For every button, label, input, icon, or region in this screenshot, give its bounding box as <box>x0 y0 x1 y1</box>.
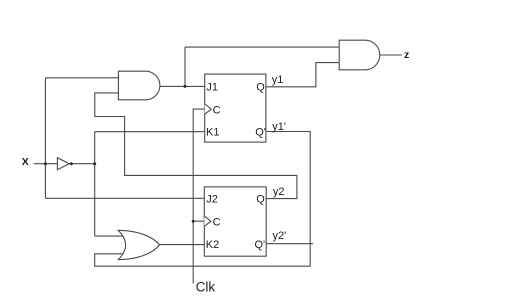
and-gate A2 (z = ·y1) <box>339 40 380 70</box>
wire K1 input (buffered X) y=131.7 <box>95 131 205 133</box>
jk-flip-flop FF1 box <box>205 74 266 142</box>
wire OR output to K2 y=244.6 <box>159 244 204 246</box>
wire vertical buffered X x=94.7 down to OR gate <box>94 132 96 236</box>
svg-text:K2: K2 <box>206 239 219 251</box>
svg-text:C: C <box>213 216 221 228</box>
svg-text:y1: y1 <box>272 74 284 86</box>
svg-text:X: X <box>22 156 29 168</box>
and-gate A1 (J1 = X·y2) <box>118 71 160 100</box>
wire X input lead <box>34 163 58 165</box>
svg-text:Q: Q <box>256 194 265 206</box>
jk-flip-flop FF2 box <box>204 187 266 256</box>
wire node J1 up to top rail <box>184 47 186 86</box>
node dot at buffer output <box>70 162 73 165</box>
svg-text:y2': y2' <box>273 230 287 242</box>
svg-text:Q': Q' <box>255 239 266 251</box>
svg-text:K1: K1 <box>206 127 219 139</box>
clock triangle C1 <box>205 104 212 114</box>
wire top rail to AND2 top input y=47.1 <box>185 46 339 48</box>
wire clock vertical x=193.2 with branch to C1 <box>193 109 205 283</box>
wire J2 input (X) y=198.3 <box>45 197 204 199</box>
svg-text:y2: y2 <box>273 186 285 198</box>
svg-text:C: C <box>213 104 221 116</box>
svg-text:y1': y1' <box>272 121 286 133</box>
wire y2' stub from Q'2 <box>266 243 313 245</box>
svg-text:Q: Q <box>256 81 265 93</box>
svg-text:Clk: Clk <box>196 280 216 295</box>
node dot X before buffer <box>44 162 47 165</box>
svg-text:J2: J2 <box>206 194 218 206</box>
wire y1' route: Q'1 right, down, left, up into OR bottom input <box>95 132 311 267</box>
node dot clock branch <box>192 220 195 223</box>
buffer gate on X input <box>57 158 69 170</box>
svg-text:J1: J1 <box>206 81 218 93</box>
wire y2 route: Q2 right, up, left, up, left, up into AND1 bottom input <box>95 93 297 199</box>
wire y1 route: Q1 right, up, into AND2 bottom input <box>266 63 339 87</box>
node dot J1 / top rail <box>184 85 187 88</box>
svg-text:Q': Q' <box>255 127 266 139</box>
wire AND1 top input (X) <box>45 77 119 79</box>
wire AND1 output to J1 y=86.4 <box>159 85 204 87</box>
clock triangle C2 <box>204 216 211 226</box>
wire clock branch to C2 y=221.2 <box>193 220 204 222</box>
node dot buffered X <box>93 162 96 165</box>
wire buffer output to node <box>69 163 95 165</box>
wire AND2 output z stub y=55 <box>380 54 402 56</box>
or-gate O1 (K2 = X + y1') <box>118 230 159 259</box>
svg-text:z: z <box>404 49 409 61</box>
wire vertical X (unbuffered) x=45.4 <box>44 78 46 199</box>
wire OR gate top input y=236.1 <box>95 235 126 237</box>
